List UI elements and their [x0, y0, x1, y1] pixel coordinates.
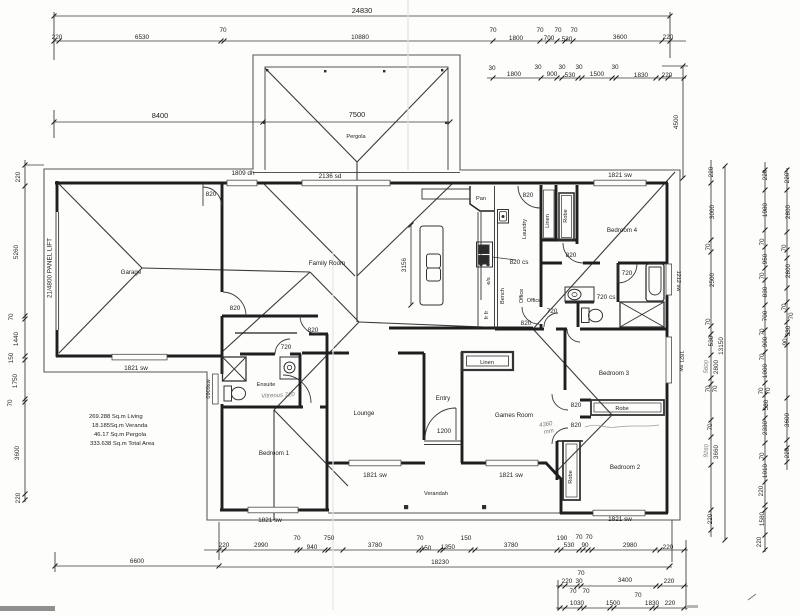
window 1212sw bath — [666, 264, 672, 295]
robe bed3 — [591, 400, 664, 415]
garage hip bottom — [59, 268, 142, 353]
svg-text:70: 70 — [781, 303, 788, 311]
svg-text:Linen: Linen — [480, 360, 494, 366]
svg-text:820 cs: 820 cs — [510, 259, 529, 266]
svg-text:Bedroom 3: Bedroom 3 — [599, 370, 630, 377]
entry threshold — [424, 441, 461, 445]
svg-text:950: 950 — [762, 253, 769, 264]
kitchen bench lines — [478, 186, 498, 329]
spine wall garage/family/bed1 — [221, 183, 224, 511]
dim left chain line — [25, 160, 44, 502]
bed3 west wall — [564, 329, 567, 390]
ticks 13150 — [723, 164, 728, 543]
svg-text:24830: 24830 — [352, 6, 373, 15]
svg-text:220: 220 — [562, 578, 573, 585]
svg-text:Games Room: Games Room — [495, 412, 533, 419]
svg-text:Verandah: Verandah — [424, 491, 448, 497]
dim 13150 line — [724, 166, 726, 540]
svg-text:1821 sw: 1821 sw — [363, 472, 387, 479]
robe stubs — [580, 400, 591, 417]
svg-text:3780: 3780 — [504, 542, 519, 549]
svg-text:150: 150 — [421, 545, 432, 552]
wir lounge wall — [302, 352, 349, 355]
svg-text:2800: 2800 — [785, 204, 792, 219]
garage bottom wall — [56, 355, 223, 358]
svg-text:720: 720 — [547, 308, 558, 315]
right wall — [666, 183, 669, 513]
svg-text:530: 530 — [763, 399, 770, 410]
svg-text:70: 70 — [705, 385, 712, 393]
front wall — [55, 182, 668, 185]
door 720 bath — [618, 264, 637, 283]
svg-text:333.638 Sq.m Total Area: 333.638 Sq.m Total Area — [90, 441, 155, 447]
dim row2 line — [54, 40, 686, 42]
games south wall — [461, 462, 547, 465]
door 820 garage entry — [203, 183, 222, 206]
svg-text:70: 70 — [585, 534, 593, 541]
diamond top-right hip — [310, 272, 359, 322]
svg-text:150: 150 — [461, 535, 472, 542]
door 820 bed4 — [563, 243, 583, 263]
svg-text:820: 820 — [566, 252, 577, 259]
svg-text:Bedroom 1: Bedroom 1 — [259, 450, 290, 457]
svg-text:220: 220 — [52, 34, 63, 41]
pergola post dots — [263, 69, 447, 124]
svg-text:1030: 1030 — [570, 600, 585, 607]
window 2136sd — [302, 180, 390, 186]
verandah east wall — [560, 478, 563, 514]
dim 24830 line — [54, 12, 670, 60]
svg-text:1809 dh: 1809 dh — [231, 170, 255, 177]
office laundry wall — [540, 185, 543, 329]
svg-text:3600: 3600 — [613, 34, 628, 41]
bed2 top wall — [557, 440, 583, 442]
svg-text:70: 70 — [759, 238, 766, 246]
family lounge wall — [389, 327, 533, 330]
svg-text:70: 70 — [712, 385, 719, 393]
svg-text:2500: 2500 — [709, 272, 716, 287]
verandah posts — [405, 506, 408, 509]
ticks bottom chain — [217, 548, 687, 553]
entry door leaf and arc — [425, 408, 456, 440]
svg-text:820: 820 — [571, 422, 582, 429]
dim right chain3 line — [786, 168, 788, 470]
svg-text:Lounge: Lounge — [354, 410, 375, 417]
svg-text:1000: 1000 — [762, 363, 769, 378]
svg-text:70: 70 — [765, 387, 772, 395]
svg-text:Entry: Entry — [436, 395, 451, 402]
svg-text:70: 70 — [570, 27, 578, 34]
door 820 bed3 hall upper — [552, 394, 568, 410]
ticks row3 — [491, 76, 687, 81]
window 1821sw bed1 — [248, 507, 298, 513]
ticks 8400 7500 — [52, 120, 453, 125]
svg-text:3600: 3600 — [784, 412, 791, 427]
svg-text:1821 sw: 1821 sw — [124, 365, 148, 372]
pergola front eave line — [253, 172, 460, 174]
garage left wall — [56, 181, 59, 357]
svg-text:30: 30 — [558, 64, 566, 71]
svg-text:190: 190 — [557, 535, 568, 542]
garage panel lift door lines — [56, 212, 59, 330]
svg-text:7500: 7500 — [349, 110, 365, 119]
diamond top-left hip — [222, 272, 310, 352]
svg-text:3400: 3400 — [618, 577, 633, 584]
door 720 ensuite — [275, 339, 290, 354]
wir wall — [299, 354, 302, 408]
ensuite top wall — [222, 315, 318, 318]
svg-text:70: 70 — [634, 592, 642, 599]
svg-text:13150: 13150 — [718, 337, 725, 355]
ensuite inner wall — [240, 353, 301, 356]
svg-text:fr fr: fr fr — [484, 311, 490, 320]
stove — [477, 242, 493, 267]
window 1821sw garage — [112, 354, 167, 360]
svg-text:30: 30 — [534, 64, 542, 71]
svg-text:70: 70 — [554, 27, 562, 34]
svg-text:1500: 1500 — [590, 71, 605, 78]
svg-text:720: 720 — [281, 344, 292, 351]
bed1 bottom wall — [220, 509, 329, 512]
svg-text:220: 220 — [665, 600, 676, 607]
ticks 4500 3156 — [409, 64, 686, 308]
bed4 west wall — [576, 185, 579, 244]
svg-text:Bedroom 2: Bedroom 2 — [610, 464, 641, 471]
window 1821sw bed2 — [593, 510, 645, 516]
fold line top — [407, 0, 409, 170]
robe bed4 closet — [559, 193, 574, 240]
svg-text:18230: 18230 — [431, 559, 449, 566]
window 1821sw games — [486, 460, 538, 466]
svg-text:70: 70 — [759, 328, 766, 336]
svg-text:150: 150 — [8, 352, 15, 363]
door 820 laundry — [518, 186, 540, 208]
entry west wall — [423, 353, 426, 440]
svg-text:1440: 1440 — [13, 331, 20, 346]
svg-text:Family Room: Family Room — [309, 260, 345, 267]
svg-text:8400: 8400 — [152, 111, 168, 120]
bath vanity — [565, 287, 594, 302]
laundry tub — [498, 210, 509, 224]
svg-text:1821 sw: 1821 sw — [678, 351, 684, 373]
svg-text:70: 70 — [788, 312, 795, 320]
door 820 office — [522, 307, 539, 324]
rear hip to verandah corner — [554, 415, 612, 474]
svg-text:940: 940 — [307, 544, 318, 551]
ensuite shower — [223, 357, 247, 381]
window 1821sw lounge — [349, 460, 401, 466]
svg-text:900: 900 — [762, 336, 769, 347]
svg-text:750: 750 — [324, 535, 335, 542]
svg-text:6530: 6530 — [135, 34, 150, 41]
svg-text:220: 220 — [756, 536, 763, 547]
svg-text:1821 sw: 1821 sw — [499, 472, 523, 479]
pantry corner — [470, 186, 494, 211]
svg-text:820: 820 — [571, 402, 582, 409]
svg-text:1010: 1010 — [762, 463, 769, 478]
entry stub — [398, 352, 424, 355]
svg-text:70: 70 — [575, 534, 583, 541]
svg-text:Robe: Robe — [563, 209, 569, 222]
kitchen island — [420, 226, 443, 305]
area text block — [89, 414, 155, 447]
ext lines bottom right — [219, 520, 686, 610]
svg-text:5260: 5260 — [13, 244, 20, 259]
window 1821sw bed4 — [594, 180, 646, 186]
svg-text:530: 530 — [564, 542, 575, 549]
garage hip top — [59, 184, 142, 268]
svg-text:1830: 1830 — [634, 72, 649, 79]
dim bottom chain line — [204, 549, 688, 551]
island sink — [427, 254, 441, 268]
roof outline main — [44, 55, 680, 520]
lounge south wall — [326, 462, 425, 465]
rear wall — [560, 512, 668, 515]
svg-text:70: 70 — [577, 570, 585, 577]
linen robe wall — [555, 185, 558, 240]
svg-text:1800: 1800 — [509, 35, 524, 42]
svg-text:Robe: Robe — [615, 406, 628, 412]
pergola hip left — [265, 68, 357, 162]
svg-text:9260: 9260 — [703, 443, 710, 457]
svg-text:820: 820 — [308, 327, 319, 334]
dim 8400 line — [54, 110, 263, 138]
svg-text:70: 70 — [705, 243, 712, 251]
wc bath — [582, 308, 590, 323]
svg-text:70: 70 — [759, 353, 766, 361]
svg-text:4500: 4500 — [673, 114, 680, 129]
hw wavy line bed2 — [585, 425, 659, 427]
svg-text:70: 70 — [569, 588, 577, 595]
svg-text:70: 70 — [219, 27, 227, 34]
pergola hip right — [357, 68, 448, 162]
svg-text:30: 30 — [611, 64, 619, 71]
svg-text:21/4800 PANEL LIFT: 21/4800 PANEL LIFT — [47, 238, 54, 298]
dim 1830 row line — [556, 607, 688, 609]
dim 18230 line — [219, 566, 672, 568]
svg-text:1200: 1200 — [437, 428, 452, 435]
linen closet top — [544, 190, 555, 238]
verandah slab edge — [328, 512, 561, 514]
svg-text:220: 220 — [707, 513, 714, 524]
svg-text:70: 70 — [8, 313, 15, 321]
svg-text:720 cs: 720 cs — [597, 294, 616, 301]
window 1821sw bed3 — [666, 337, 672, 383]
svg-text:0909sw: 0909sw — [206, 378, 212, 398]
bath internal wall — [617, 263, 620, 302]
svg-text:820: 820 — [230, 305, 241, 312]
svg-text:220: 220 — [15, 492, 22, 503]
svg-text:220: 220 — [758, 485, 765, 496]
svg-text:Bedroom 4: Bedroom 4 — [607, 227, 638, 234]
svg-text:269.288 Sq.m Living: 269.288 Sq.m Living — [89, 414, 143, 420]
svg-text:2990: 2990 — [254, 542, 269, 549]
dim right chain1 line — [710, 160, 712, 537]
svg-text:70: 70 — [293, 535, 301, 542]
ticks 24830 — [52, 14, 673, 19]
svg-text:820: 820 — [523, 192, 534, 199]
verandah corner diag wall — [546, 463, 561, 479]
hall wall y329 — [495, 328, 667, 331]
svg-text:1212 sw: 1212 sw — [675, 271, 681, 293]
svg-text:3156: 3156 — [401, 257, 408, 272]
svg-text:mm: mm — [543, 428, 554, 435]
svg-text:Office: Office — [519, 289, 525, 304]
svg-text:700: 700 — [762, 310, 769, 321]
window 0909sw ensuite — [213, 374, 219, 404]
dim 4500 line — [662, 66, 688, 178]
family valley right — [357, 183, 453, 276]
svg-text:70: 70 — [7, 399, 14, 407]
vanity south wall — [565, 301, 594, 304]
svg-text:90: 90 — [782, 338, 789, 346]
svg-text:220: 220 — [219, 542, 230, 549]
door 720 wir — [283, 375, 311, 403]
svg-text:70: 70 — [781, 244, 788, 252]
lounge door stub — [309, 333, 328, 336]
pergola inner outline — [265, 67, 448, 170]
svg-text:10880: 10880 — [351, 34, 369, 41]
svg-text:220: 220 — [662, 72, 673, 79]
svg-text:e/s: e/s — [486, 277, 492, 285]
svg-text:30: 30 — [488, 65, 496, 72]
ticks 3400 row — [558, 584, 687, 589]
svg-text:220: 220 — [762, 169, 769, 180]
svg-text:6600: 6600 — [130, 558, 145, 565]
svg-text:1980: 1980 — [762, 202, 769, 217]
window 1809dh — [227, 180, 257, 186]
svg-text:3660: 3660 — [713, 444, 720, 459]
svg-text:1821 sw: 1821 sw — [608, 172, 632, 179]
svg-text:Office: Office — [527, 298, 542, 304]
svg-text:18.185Sq.m Veranda: 18.185Sq.m Veranda — [92, 423, 148, 429]
bed2 west wall — [556, 441, 559, 480]
bed1 ensuite divider — [222, 406, 328, 409]
family valley left — [263, 183, 355, 276]
svg-text:720: 720 — [622, 270, 633, 277]
leader 820cs — [492, 257, 516, 260]
shower bath — [620, 302, 664, 327]
dim 6600 line — [55, 552, 219, 572]
ticks chain1 — [709, 181, 714, 533]
ticks chain3 — [785, 168, 790, 465]
svg-text:Pan: Pan — [476, 196, 486, 202]
dim 3400 row line — [556, 585, 688, 587]
svg-text:220: 220 — [784, 447, 791, 458]
dim row3 line — [487, 77, 686, 79]
svg-text:1830: 1830 — [645, 600, 660, 607]
ticks 6600 18230 — [53, 564, 673, 570]
svg-text:70: 70 — [582, 588, 590, 595]
bath — [646, 264, 664, 301]
svg-text:530: 530 — [562, 36, 573, 43]
svg-text:1821 sw: 1821 sw — [258, 517, 282, 524]
games west wall — [461, 352, 464, 463]
svg-text:70: 70 — [416, 535, 424, 542]
svg-text:Bench: Bench — [500, 288, 506, 304]
linen bottom wall — [541, 239, 577, 242]
svg-text:3600: 3600 — [14, 445, 21, 460]
lounge west wall — [326, 334, 329, 511]
dim right chain2 line — [764, 162, 766, 552]
wc hall wall — [577, 302, 580, 327]
bed1 wing hip — [274, 410, 348, 486]
linen games — [462, 352, 513, 370]
ensuite wc — [224, 386, 232, 401]
bed4 south wall — [541, 262, 667, 265]
center ridge horizontal — [359, 322, 533, 329]
kitchen bench top — [422, 189, 470, 199]
svg-text:820: 820 — [521, 320, 532, 327]
svg-text:2800: 2800 — [713, 359, 720, 374]
svg-text:3780: 3780 — [368, 542, 383, 549]
svg-text:1800: 1800 — [507, 71, 522, 78]
svg-text:Ensuite: Ensuite — [257, 382, 276, 388]
svg-text:70: 70 — [707, 423, 714, 431]
ensuite shelf line — [235, 332, 297, 334]
svg-text:1580: 1580 — [759, 511, 766, 526]
svg-text:30: 30 — [575, 578, 583, 585]
svg-text:220: 220 — [784, 172, 791, 183]
svg-text:Robe: Robe — [568, 470, 574, 483]
svg-text:2330: 2330 — [762, 420, 769, 435]
svg-text:820: 820 — [206, 191, 217, 198]
rear valley — [533, 329, 612, 415]
svg-text:220: 220 — [663, 544, 674, 551]
svg-text:Vitreous 720: Vitreous 720 — [261, 392, 296, 400]
door 720 wc — [544, 313, 558, 327]
door 820 ensuite hall — [300, 316, 318, 334]
svg-text:70: 70 — [489, 27, 497, 34]
garage ridge — [142, 268, 310, 272]
svg-text:2800: 2800 — [785, 263, 792, 278]
svg-text:700: 700 — [544, 35, 555, 42]
svg-text:220: 220 — [15, 171, 22, 182]
svg-text:2136 sd: 2136 sd — [319, 173, 342, 180]
svg-text:70: 70 — [705, 318, 712, 326]
ensuite vanity — [280, 357, 299, 379]
NE hip — [533, 172, 675, 329]
svg-text:220: 220 — [663, 34, 674, 41]
svg-text:Garage: Garage — [121, 269, 142, 276]
svg-text:530: 530 — [708, 335, 715, 346]
bottom scan band — [0, 606, 55, 611]
door 820 family-garage — [223, 292, 246, 316]
ticks row2 — [52, 39, 673, 44]
svg-text:220: 220 — [708, 166, 715, 177]
svg-text:1821 sw: 1821 sw — [608, 516, 632, 523]
ticks left chain — [23, 163, 28, 503]
svg-text:530: 530 — [565, 72, 576, 79]
ticks chain2 — [763, 168, 768, 553]
svg-text:70: 70 — [759, 272, 766, 280]
svg-text:70: 70 — [536, 27, 544, 34]
svg-text:70: 70 — [758, 387, 765, 395]
svg-text:90: 90 — [581, 542, 589, 549]
svg-text:830: 830 — [762, 286, 769, 297]
diamond bottom hip — [274, 322, 359, 410]
svg-text:5600: 5600 — [703, 359, 710, 373]
dim 7500 line — [264, 121, 450, 123]
svg-text:1750: 1750 — [12, 373, 19, 388]
svg-text:900: 900 — [547, 71, 558, 78]
svg-text:Laundry: Laundry — [522, 219, 528, 239]
dim 3156 line — [410, 225, 412, 305]
fold line bottom — [332, 250, 334, 610]
svg-text:70: 70 — [759, 452, 766, 460]
svg-text:1350: 1350 — [441, 544, 456, 551]
svg-text:530: 530 — [785, 325, 792, 336]
